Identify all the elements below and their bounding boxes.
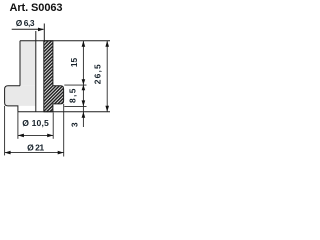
body left (tube exterior, gray) (20, 41, 36, 86)
arrow up (8,5 top) (82, 85, 86, 91)
arrow left (21) (5, 151, 11, 155)
tube left outline (19, 41, 21, 86)
dim 21 line (5, 152, 64, 154)
dim 21 extension lines (4, 106, 6, 155)
tube top edge + extension line to right (20, 40, 110, 42)
dim 10,5 extension lines (17, 112, 19, 139)
dim 6,3 leader line (12, 28, 44, 30)
hatched section (right wall + flange bulge) (44, 41, 64, 112)
svg-text:8,5: 8,5 (67, 88, 77, 103)
boss bottom edge + extension line to right (18, 111, 110, 113)
svg-text:3: 3 (70, 122, 80, 127)
dim 10,5 line (18, 134, 53, 136)
arrow down (8,5 bottom) (82, 100, 86, 106)
arrow up top (26,5) (105, 41, 109, 47)
arrow right at 6,3 (38, 28, 44, 32)
arrow down (15 bottom) (82, 79, 86, 85)
flange outline left (5, 86, 20, 112)
svg-text:Art. S0063: Art. S0063 (10, 2, 63, 14)
arrow down bottom (26,5) (105, 106, 109, 112)
dim line 26,5 vertical (106, 41, 108, 112)
svg-text:Ø 21: Ø 21 (27, 143, 44, 153)
bore right extension above tube (43, 24, 45, 41)
extension line flange top right (64, 84, 86, 86)
dim line 15 / 8,5 / 3 vertical (82, 41, 84, 127)
svg-text:Ø 6,3: Ø 6,3 (16, 18, 35, 28)
svg-text:15: 15 (69, 58, 79, 68)
arrow right (10,5) (47, 134, 53, 138)
svg-text:26,5: 26,5 (93, 64, 103, 84)
flange left (gray, rounded left corners) (5, 86, 36, 106)
arrow right (21) (58, 151, 64, 155)
arrow up outside (3) (82, 112, 86, 118)
extension line flange bottom right (64, 105, 86, 107)
bore left line (35, 31, 37, 112)
svg-text:Ø 10,5: Ø 10,5 (22, 118, 49, 128)
arrow left (10,5) (18, 134, 24, 138)
arrow up top (15) (82, 41, 86, 47)
